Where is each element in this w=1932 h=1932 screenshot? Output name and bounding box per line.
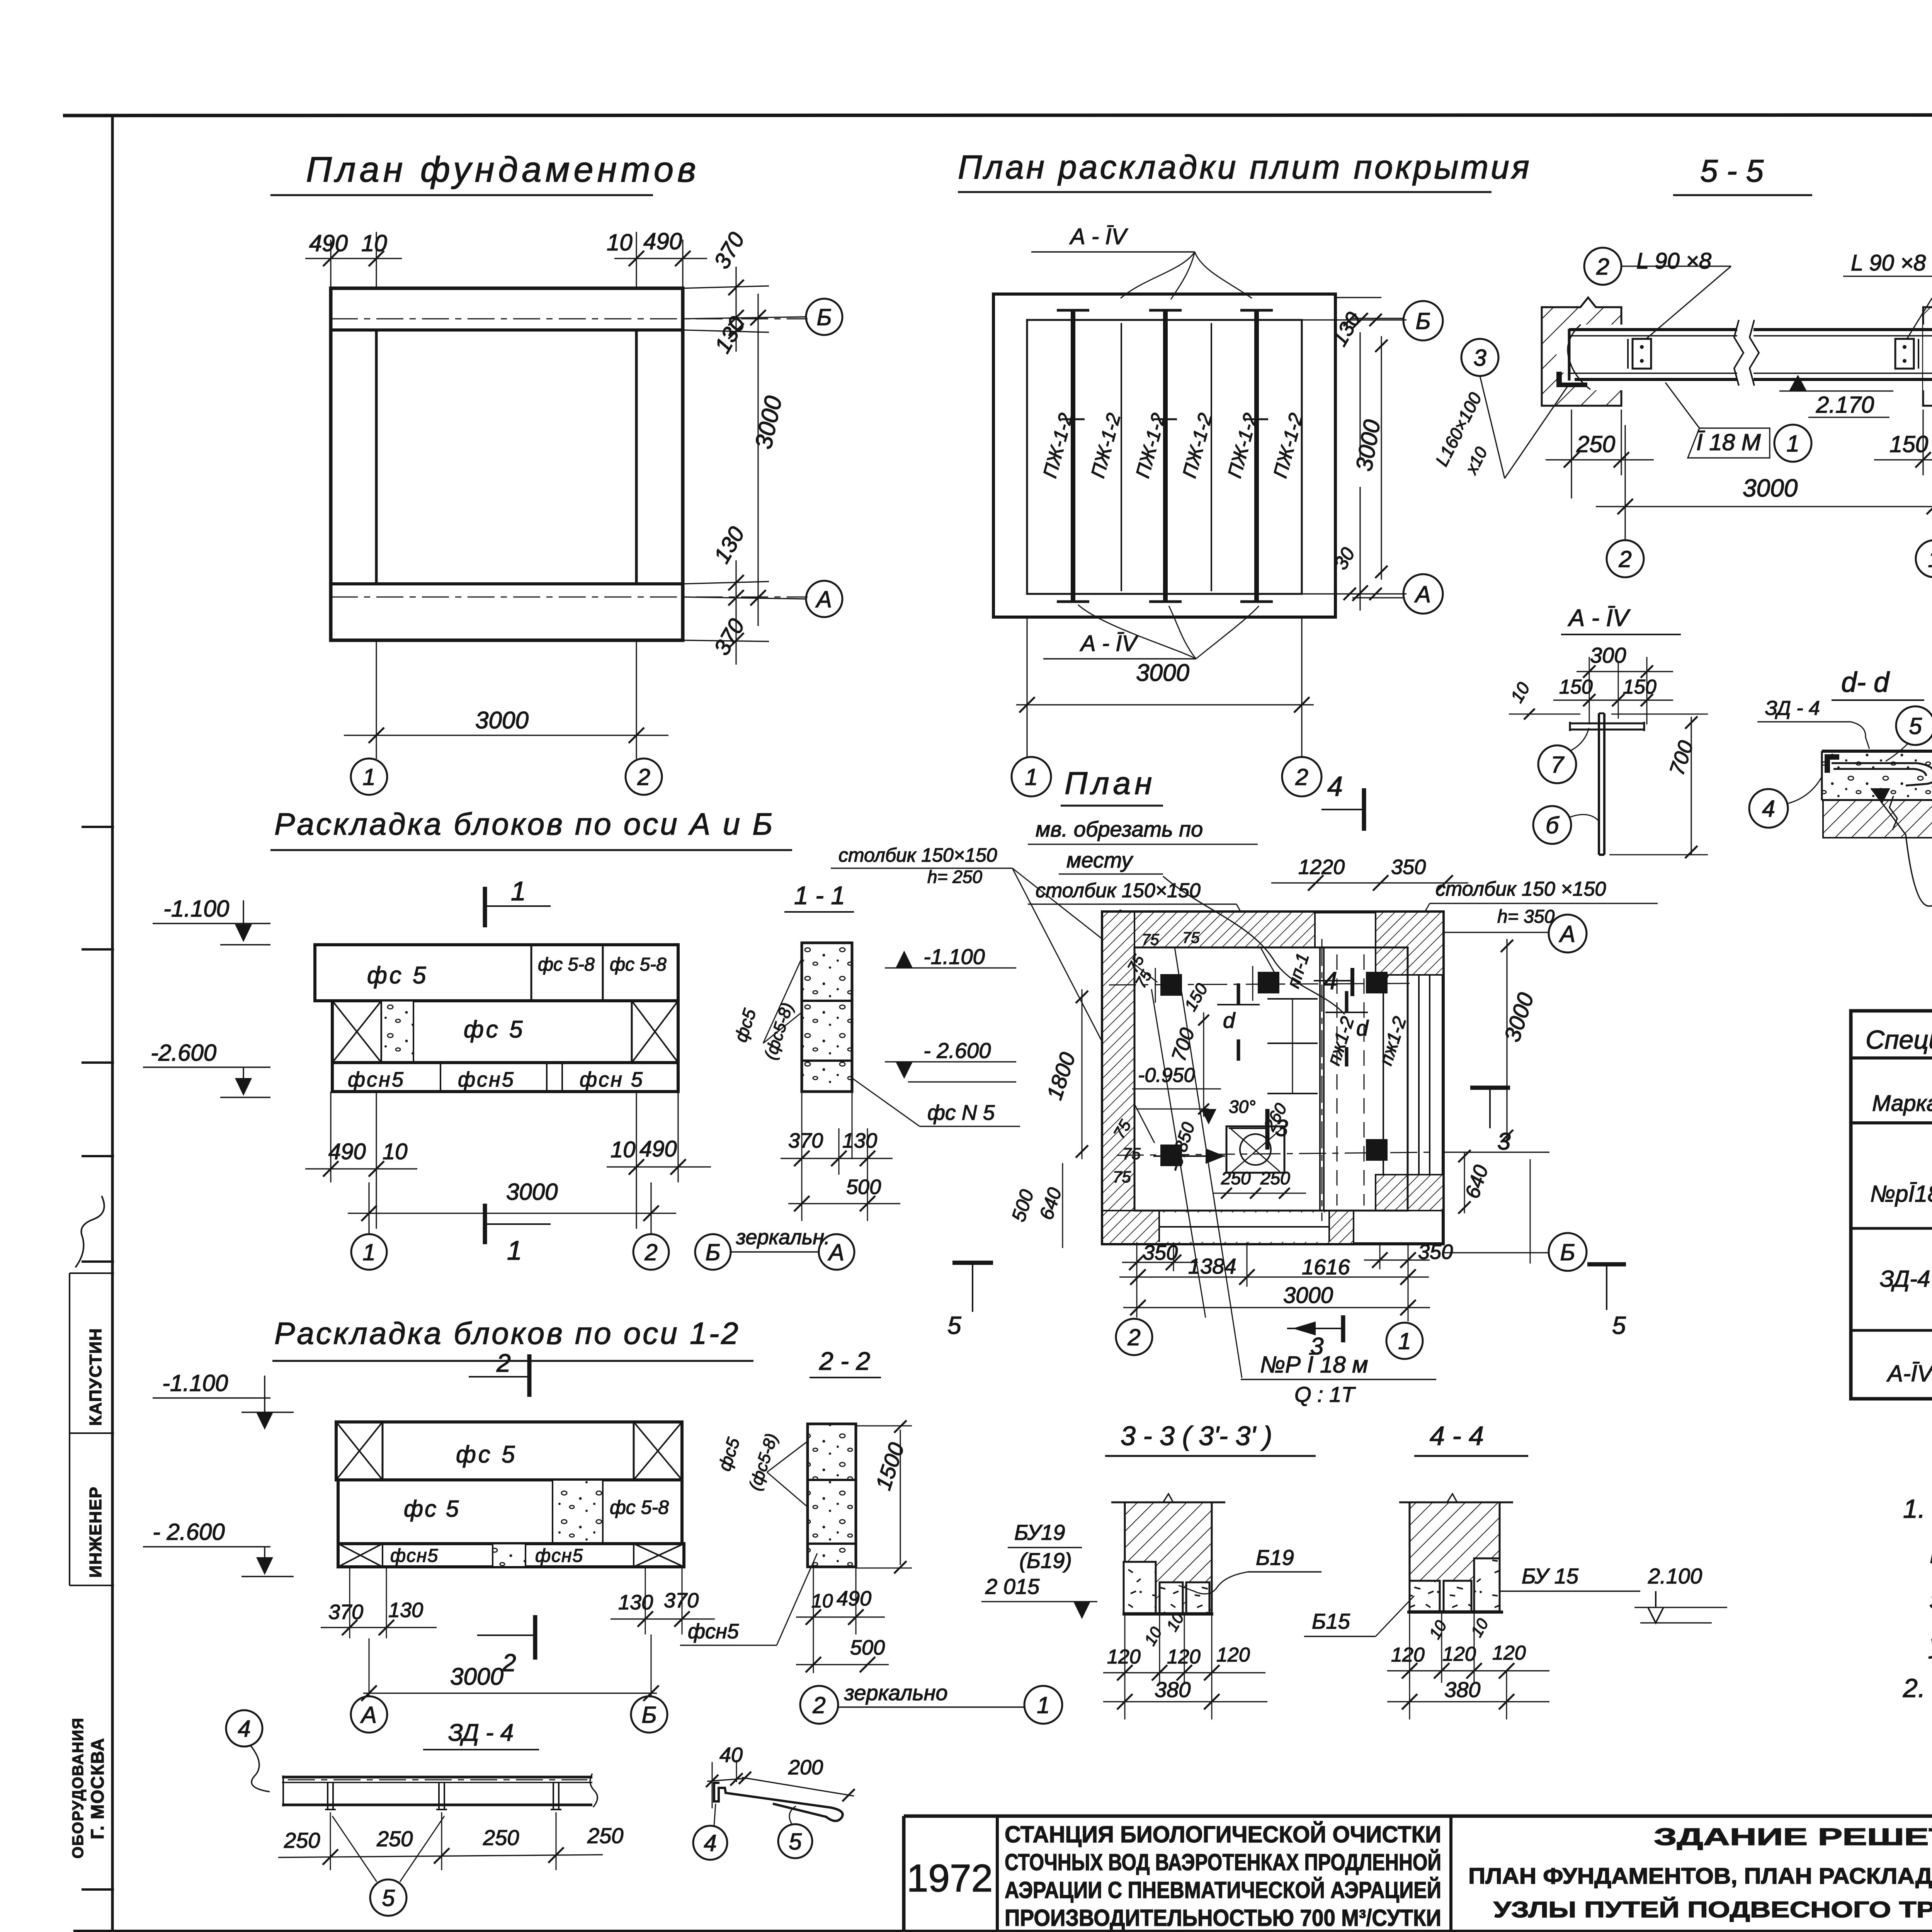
svg-text:зеркально: зеркально bbox=[844, 1680, 948, 1705]
svg-text:10: 10 bbox=[611, 1137, 636, 1162]
foundation plan top band bottom edge bbox=[331, 328, 683, 332]
axis circle 1 slab plan bbox=[1012, 757, 1051, 796]
svg-text:250: 250 bbox=[1260, 1168, 1290, 1188]
svg-text:2: 2 bbox=[1618, 546, 1631, 572]
svg-text:фсн 5: фсн 5 bbox=[580, 1068, 644, 1091]
svg-text:120: 120 bbox=[1442, 1643, 1476, 1665]
4-4 wall hatched bbox=[1410, 1502, 1500, 1581]
3-3 small blocks bbox=[1160, 1582, 1183, 1613]
axis circle 2 under 5-5 bbox=[1607, 540, 1644, 577]
svg-text:Q : 1Т: Q : 1Т bbox=[1294, 1382, 1356, 1406]
callout circle 4 detail bbox=[693, 1826, 727, 1860]
svg-text:ЗД - 4: ЗД - 4 bbox=[448, 1719, 514, 1746]
svg-text:3: 3 bbox=[1275, 1115, 1288, 1141]
svg-text:250: 250 bbox=[376, 1827, 413, 1851]
svg-text:Раскладка блоков по оси 1-2: Раскладка блоков по оси 1-2 bbox=[274, 1316, 740, 1350]
svg-text:370: 370 bbox=[328, 1600, 363, 1624]
5-5 right wall hatched bbox=[1923, 307, 1932, 406]
callout circle 5 detail bbox=[778, 1824, 812, 1858]
svg-text:3: 3 bbox=[1497, 1128, 1510, 1155]
3-3 block left bbox=[1124, 1562, 1156, 1613]
title block frame bbox=[904, 1815, 1932, 1818]
svg-text:370: 370 bbox=[788, 1129, 823, 1152]
wall hatching bottom-right block bbox=[1376, 1175, 1443, 1211]
d-d slab block bbox=[1822, 751, 1932, 800]
svg-text:L 90 ×8: L 90 ×8 bbox=[1851, 250, 1926, 276]
svg-text:мв. обрезать по: мв. обрезать по bbox=[1036, 817, 1203, 841]
level -1.100 right of 1-1 bbox=[896, 951, 913, 968]
svg-text:Ī 18 М: Ī 18 М bbox=[1696, 429, 1761, 455]
svg-text:Б: Б bbox=[641, 1702, 656, 1728]
svg-text:-1.100: -1.100 bbox=[923, 944, 985, 969]
svg-text:А: А bbox=[360, 1702, 377, 1728]
svg-text:зеркальн.: зеркальн. bbox=[736, 1226, 830, 1249]
svg-text:3000: 3000 bbox=[1743, 474, 1798, 502]
wall hatching top-right block bbox=[1376, 912, 1443, 975]
svg-text:месту: месту bbox=[1066, 848, 1133, 872]
svg-text:-1.100: -1.100 bbox=[163, 896, 229, 922]
svg-text:Марка: Марка bbox=[1872, 1091, 1932, 1116]
svg-text:5: 5 bbox=[947, 1311, 961, 1339]
svg-text:30°: 30° bbox=[1229, 1097, 1256, 1117]
svg-text:КАПУСТИН: КАПУСТИН bbox=[86, 1328, 105, 1426]
section mark 5 left bbox=[952, 1261, 993, 1265]
svg-text:Б: Б bbox=[705, 1240, 720, 1265]
svg-text:План раскладки плит покрытия: План раскладки плит покрытия bbox=[958, 149, 1532, 186]
svg-text:250: 250 bbox=[587, 1823, 623, 1848]
svg-text:75: 75 bbox=[1182, 929, 1200, 946]
5-5 mid break bbox=[1737, 321, 1753, 386]
axis line А bbox=[331, 597, 808, 598]
svg-text:А: А bbox=[1559, 921, 1575, 947]
axis circle 2 slab plan bbox=[1282, 757, 1321, 796]
left margin tick marks bbox=[82, 826, 114, 828]
svg-text:250: 250 bbox=[483, 1825, 519, 1850]
slab plan outer rect bbox=[993, 294, 1335, 617]
svg-text:2: 2 bbox=[812, 1692, 825, 1718]
X block right bbox=[631, 1001, 633, 1063]
5-5 connection plate right L90x8 bbox=[1895, 339, 1914, 369]
axis circle А slab plan bbox=[1403, 574, 1443, 614]
speckled block bbox=[381, 1001, 413, 1063]
svg-text:2: 2 bbox=[1127, 1325, 1140, 1350]
svg-text:№Р Ī 18 м: №Р Ī 18 м bbox=[1260, 1352, 1368, 1378]
svg-text:№рĪ18: №рĪ18 bbox=[1870, 1181, 1932, 1207]
svg-text:120: 120 bbox=[1107, 1646, 1141, 1668]
blocks row top ФС5 bbox=[315, 945, 678, 1001]
svg-text:ЗД - 4: ЗД - 4 bbox=[1765, 697, 1820, 719]
wall hatching left bbox=[1102, 912, 1134, 1244]
1-2 top row ФС5 with X ends bbox=[336, 1422, 682, 1480]
sheet frame top border bbox=[63, 115, 1932, 116]
axis circle 2 bbox=[626, 759, 662, 795]
opening in bottom wall bbox=[1159, 1213, 1329, 1242]
svg-text:10: 10 bbox=[811, 1590, 833, 1612]
svg-text:2: 2 bbox=[644, 1240, 657, 1265]
svg-text:- 2.600: - 2.600 bbox=[153, 1519, 225, 1545]
svg-text:Б: Б bbox=[1415, 308, 1430, 334]
svg-text:Б19: Б19 bbox=[1256, 1545, 1294, 1570]
svg-text:СТОЧНЫХ ВОД ВАЭРОТЕНКАХ ПРОДЛЕ: СТОЧНЫХ ВОД ВАЭРОТЕНКАХ ПРОДЛЕННОЙ bbox=[1005, 1849, 1441, 1875]
bent plate profile bbox=[714, 1783, 843, 1821]
callout circle 3 left bbox=[1461, 339, 1498, 376]
svg-text:75: 75 bbox=[1122, 1145, 1141, 1163]
svg-text:1220: 1220 bbox=[1298, 855, 1345, 879]
svg-text:h= 250: h= 250 bbox=[927, 867, 982, 887]
embedded angle at left bbox=[1825, 754, 1839, 773]
1-2 bottom row ФСН5 bbox=[338, 1544, 684, 1567]
svg-text:300: 300 bbox=[1590, 643, 1626, 667]
foundation plan left inner wall line bbox=[375, 330, 378, 584]
svg-text:1: 1 bbox=[1786, 431, 1799, 457]
svg-text:1: 1 bbox=[1025, 764, 1037, 790]
door opening right wall thin lines bbox=[1418, 975, 1420, 1175]
foundation plan outline bbox=[331, 288, 683, 640]
svg-text:250: 250 bbox=[1221, 1168, 1251, 1188]
svg-text:490: 490 bbox=[643, 228, 682, 254]
svg-text:5: 5 bbox=[1612, 1311, 1626, 1339]
svg-text:1: 1 bbox=[1037, 1692, 1049, 1718]
svg-text:столбик 150 ×150: столбик 150 ×150 bbox=[1435, 878, 1606, 900]
svg-text:А: А bbox=[828, 1240, 844, 1265]
arrow into opening bbox=[1153, 1155, 1225, 1157]
svg-text:5: 5 bbox=[789, 1829, 802, 1855]
svg-text:1. Блоки фундаментов укладыват: 1. Блоки фундаментов укладывать на песча… bbox=[1903, 1494, 1932, 1524]
svg-text:-1.100: -1.100 bbox=[162, 1370, 228, 1396]
dims 490 10 / 10 490 below bbox=[330, 1092, 331, 1182]
svg-text:500: 500 bbox=[850, 1636, 885, 1659]
svg-text:2: 2 bbox=[496, 1349, 511, 1377]
svg-text:4: 4 bbox=[1762, 796, 1775, 822]
svg-text:2: 2 bbox=[1295, 764, 1308, 790]
axis circle Б bbox=[806, 299, 842, 335]
rail studs bbox=[327, 1782, 328, 1810]
svg-text:1: 1 bbox=[362, 1240, 375, 1265]
svg-text:3000: 3000 bbox=[506, 1179, 558, 1205]
X block left bbox=[332, 1001, 381, 1063]
5-5 white pocket in walls bbox=[1556, 325, 1623, 390]
svg-text:d- d: d- d bbox=[1841, 667, 1890, 698]
small opening square with circle bbox=[1226, 1126, 1284, 1173]
svg-text:130: 130 bbox=[388, 1599, 423, 1622]
svg-text:ЗДАНИЕ РЕШЕТОК: ЗДАНИЕ РЕШЕТОК bbox=[1654, 1824, 1932, 1850]
axis circle 1 bbox=[351, 759, 387, 795]
svg-text:490: 490 bbox=[639, 1136, 677, 1162]
axis circle Б with зеркальн to А bbox=[695, 1234, 731, 1270]
svg-text:фсн5: фсн5 bbox=[458, 1068, 515, 1091]
svg-text:План: План bbox=[1065, 766, 1156, 801]
callout circle б bbox=[1533, 806, 1571, 844]
section mark 3 right upper bbox=[1470, 1086, 1510, 1090]
level 2.170 bbox=[1789, 375, 1807, 391]
section mark 2 top bbox=[527, 1354, 532, 1397]
svg-text:d: d bbox=[1223, 1008, 1236, 1032]
axis circle А bbox=[806, 581, 842, 617]
svg-text:4: 4 bbox=[1327, 771, 1343, 802]
left axis 3000 dim between Б and А bbox=[1381, 336, 1382, 580]
svg-text:200: 200 bbox=[788, 1756, 823, 1779]
svg-text:БУ 15: БУ 15 bbox=[1522, 1564, 1579, 1588]
sheet frame bottom border bbox=[73, 1930, 1932, 1932]
ladder symbol near center bbox=[1267, 998, 1318, 1000]
svg-text:2: 2 bbox=[637, 764, 650, 790]
central plan outer bbox=[1102, 912, 1443, 1244]
svg-text:4: 4 bbox=[238, 1716, 250, 1742]
level -2.600 right of 1-1 bbox=[896, 1062, 913, 1079]
5-5 left seat angle bbox=[1556, 372, 1587, 387]
long leader from label to plan bbox=[1175, 947, 1242, 1378]
svg-text:ЗД-4: ЗД-4 bbox=[1880, 1266, 1930, 1292]
3-3 wall hatched bbox=[1125, 1502, 1212, 1613]
svg-text:3 - 3 ( 3'- 3' ): 3 - 3 ( 3'- 3' ) bbox=[1121, 1421, 1272, 1451]
inner room boundary bbox=[1134, 947, 1408, 1211]
svg-text:350: 350 bbox=[1391, 855, 1426, 879]
svg-text:370: 370 bbox=[664, 1589, 699, 1612]
callout circle 4 bbox=[226, 1710, 262, 1747]
svg-text:2.100: 2.100 bbox=[1648, 1564, 1702, 1588]
svg-text:(Б19): (Б19) bbox=[1019, 1548, 1072, 1573]
axis circle 1 bbox=[351, 1234, 387, 1270]
svg-text:1616: 1616 bbox=[1302, 1255, 1350, 1279]
svg-text:1: 1 bbox=[1928, 546, 1932, 572]
svg-text:Г. МОСКВА: Г. МОСКВА bbox=[87, 1738, 107, 1839]
slab plan inner rect bbox=[1027, 320, 1302, 594]
axis circle Б slab plan bbox=[1403, 301, 1443, 340]
left margin signature bbox=[75, 1196, 104, 1267]
1-2 middle row bbox=[338, 1480, 682, 1544]
axis circle 1 bottom bbox=[1386, 1323, 1423, 1359]
svg-text:Раскладка блоков по оси А и: Раскладка блоков по оси А и Б bbox=[274, 807, 774, 841]
table Спецификация стали на 1 штуку каждой марки bbox=[1851, 1011, 1932, 1399]
svg-text:- 2.600: - 2.600 bbox=[923, 1038, 991, 1063]
svg-text:4 - 4: 4 - 4 bbox=[1430, 1421, 1484, 1451]
svg-text:1: 1 bbox=[1398, 1328, 1411, 1354]
axis circle 2 зеркально circle 1 bbox=[800, 1686, 838, 1724]
leader curves to plates bbox=[1121, 252, 1252, 299]
dims 370 130 / 130 370 bbox=[349, 1567, 350, 1638]
svg-text:d: d bbox=[1356, 1016, 1369, 1040]
svg-text:h= 350: h= 350 bbox=[1497, 906, 1554, 927]
svg-text:490: 490 bbox=[837, 1587, 871, 1610]
svg-text:7: 7 bbox=[1551, 752, 1565, 778]
svg-text:А: А bbox=[1414, 582, 1431, 607]
axis line Б bbox=[331, 318, 808, 320]
svg-text:фсн5: фсн5 bbox=[688, 1620, 739, 1643]
svg-text:120: 120 bbox=[1216, 1644, 1250, 1666]
svg-text:250: 250 bbox=[284, 1828, 320, 1852]
svg-text:б: б bbox=[1546, 813, 1560, 838]
svg-text:УЗЛЫ ПУТЕЙ ПОДВЕСНОГО ТРАНСПОР: УЗЛЫ ПУТЕЙ ПОДВЕСНОГО ТРАНСПОРТА bbox=[1493, 1897, 1932, 1922]
svg-text:500: 500 bbox=[846, 1175, 881, 1199]
right dim chain 370 130 3000 130 370 bbox=[683, 286, 769, 288]
svg-text:А - ĪV: А - ĪV bbox=[1069, 224, 1128, 249]
axis circle Б bbox=[631, 1696, 667, 1733]
svg-text:L 90 ×8: L 90 ×8 bbox=[1636, 248, 1711, 274]
svg-text:3000: 3000 bbox=[1136, 660, 1189, 686]
section mark 3 inner bbox=[1265, 1109, 1270, 1150]
svg-text:фс 5-8: фс 5-8 bbox=[610, 1497, 669, 1518]
svg-text:5 - 5: 5 - 5 bbox=[1700, 153, 1764, 189]
5-5 crane beam I18 bbox=[1569, 328, 1932, 331]
svg-text:Б: Б bbox=[816, 304, 832, 330]
svg-text:фсн5: фсн5 bbox=[348, 1068, 405, 1091]
svg-text:2: 2 bbox=[502, 1649, 516, 1677]
svg-text:120: 120 bbox=[1492, 1642, 1526, 1664]
foundation plan right inner wall line bbox=[635, 330, 638, 584]
section mark 2 bottom bbox=[533, 1615, 537, 1660]
svg-text:380: 380 bbox=[1444, 1677, 1480, 1702]
svg-text:350: 350 bbox=[1143, 1241, 1178, 1264]
svg-text:75: 75 bbox=[1113, 1168, 1131, 1186]
1-1 column blocks bbox=[802, 943, 852, 1092]
svg-text:10: 10 bbox=[607, 230, 633, 255]
svg-text:ОБОРУДОВАНИЯ: ОБОРУДОВАНИЯ bbox=[70, 1717, 87, 1859]
svg-text:столбик 150×150: столбик 150×150 bbox=[838, 844, 997, 866]
svg-text:А - ĪV: А - ĪV bbox=[1567, 605, 1631, 631]
svg-text:подготовку толщиной 100мм Швы: подготовку толщиной 100мм Швы между блок… bbox=[1930, 1539, 1932, 1569]
svg-text:1 - 1: 1 - 1 bbox=[794, 881, 845, 910]
svg-text:фс N 5: фс N 5 bbox=[927, 1100, 995, 1124]
T profile: plate and stem bbox=[1570, 723, 1644, 724]
axis circle 2 bbox=[633, 1234, 669, 1270]
svg-text:250: 250 bbox=[1576, 431, 1615, 457]
svg-text:2 - 2: 2 - 2 bbox=[819, 1347, 870, 1375]
svg-text:5: 5 bbox=[1909, 713, 1922, 739]
4-4 blocks bbox=[1410, 1581, 1440, 1611]
svg-text:А: А bbox=[815, 587, 832, 612]
svg-text:490: 490 bbox=[328, 1139, 366, 1164]
svg-text:150: 150 bbox=[1559, 676, 1593, 698]
svg-text:А - ĪV: А - ĪV bbox=[1080, 631, 1139, 656]
callout circle 1 beam bbox=[1774, 425, 1811, 462]
sheet frame left border bbox=[111, 116, 114, 1932]
svg-text:ИНЖЕНЕР: ИНЖЕНЕР bbox=[86, 1486, 105, 1578]
svg-text:План фундаментов: План фундаментов bbox=[306, 150, 700, 189]
axis circle Б right bbox=[1549, 1233, 1587, 1271]
break marks bbox=[1889, 748, 1932, 830]
svg-text:1972: 1972 bbox=[907, 1857, 993, 1900]
svg-text:Спецификация стали на 1 штуку: Спецификация стали на 1 штуку каждой мар… bbox=[1866, 1025, 1932, 1054]
svg-text:40: 40 bbox=[719, 1743, 743, 1767]
svg-text:2. Размеры в скобках даны для: 2. Размеры в скобках даны для сечения 3'… bbox=[1903, 1673, 1932, 1703]
leader wavy curve from обрезать label into plan bbox=[1163, 876, 1345, 1014]
svg-text:Б15: Б15 bbox=[1312, 1609, 1350, 1633]
plates ПЖ1-2 dashed outlines right side bbox=[1337, 954, 1338, 1206]
5-5 left wall hatched bbox=[1542, 307, 1621, 406]
5-5 connection plate left L90x8 bbox=[1633, 339, 1651, 369]
svg-text:490: 490 bbox=[309, 230, 348, 256]
svg-text:фс 5: фс 5 bbox=[464, 1016, 525, 1043]
svg-text:фс 5: фс 5 bbox=[404, 1496, 460, 1522]
svg-text:Б: Б bbox=[1560, 1240, 1575, 1265]
section mark 1 top bbox=[483, 887, 487, 927]
svg-text:фс 5: фс 5 bbox=[456, 1441, 517, 1468]
axis circle 1 under 5-5 bbox=[1916, 540, 1932, 577]
svg-text:фсн5: фсн5 bbox=[535, 1546, 583, 1566]
wall hatching top bbox=[1134, 912, 1315, 947]
section mark 5 right bbox=[1587, 1262, 1626, 1267]
blocks row bottom ФСН5 bbox=[332, 1063, 678, 1092]
section mark 1 bottom bbox=[483, 1204, 487, 1244]
axis circle 2 bottom bbox=[1116, 1319, 1152, 1355]
svg-text:4: 4 bbox=[704, 1830, 716, 1856]
callout circle 2 with label L90x8 left bbox=[1584, 248, 1621, 285]
svg-text:1: 1 bbox=[507, 1235, 522, 1265]
foundation plan bottom band top edge bbox=[331, 582, 683, 585]
slab beam thick bars with end caps bbox=[1071, 309, 1075, 603]
callout circle 4 d-d bbox=[1749, 789, 1788, 828]
dim 1500 right bbox=[856, 1425, 912, 1427]
svg-text:2: 2 bbox=[1596, 254, 1609, 280]
svg-text:3: 3 bbox=[1473, 345, 1486, 371]
blocks row middle bbox=[332, 1001, 678, 1063]
svg-text:2 015: 2 015 bbox=[985, 1574, 1040, 1599]
svg-text:10: 10 bbox=[383, 1139, 408, 1164]
svg-text:столбик 150×150: столбик 150×150 bbox=[1036, 879, 1201, 902]
anchor hook bbox=[1832, 763, 1932, 786]
black columns 150x150 bbox=[1160, 974, 1182, 996]
svg-text:ПРОИЗВОДИТЕЛЬНОСТЬЮ 700 М³/СУТ: ПРОИЗВОДИТЕЛЬНОСТЬЮ 700 М³/СУТКИ bbox=[1005, 1905, 1441, 1931]
slab joint thin lines bbox=[1121, 323, 1122, 591]
callout circle 5 with leaders bbox=[370, 1879, 406, 1916]
axis dash-dot lines through columns bbox=[1109, 983, 1414, 985]
svg-text:130: 130 bbox=[618, 1591, 653, 1614]
svg-text:фс 5-8: фс 5-8 bbox=[610, 954, 667, 975]
monorail I18 line vertical center bbox=[1319, 947, 1321, 1211]
svg-text:120: 120 bbox=[1167, 1646, 1201, 1668]
2-2 column blocks bbox=[808, 1424, 856, 1567]
svg-text:фсн5: фсн5 bbox=[390, 1546, 439, 1566]
svg-text:1: 1 bbox=[362, 764, 375, 790]
svg-text:АЭРАЦИИ С ПНЕВМАТИЧЕСКОЙ АЭРАЦ: АЭРАЦИИ С ПНЕВМАТИЧЕСКОЙ АЭРАЦИЕЙ bbox=[1005, 1877, 1441, 1903]
svg-text:5: 5 bbox=[382, 1885, 395, 1911]
svg-text:БУ19: БУ19 bbox=[1014, 1520, 1065, 1544]
svg-text:ПЛАН ФУНДАМЕНТОВ, ПЛАН РАСКЛАД: ПЛАН ФУНДАМЕНТОВ, ПЛАН РАСКЛАДКИ ПЛИТ ПО… bbox=[1468, 1864, 1932, 1889]
svg-text:2.170: 2.170 bbox=[1816, 392, 1874, 418]
svg-text:фс 5-8: фс 5-8 bbox=[538, 954, 595, 975]
svg-text:3000: 3000 bbox=[450, 1663, 503, 1690]
svg-text:СТАНЦИЯ БИОЛОГИЧЕСКОЙ ОЧИСТКИ: СТАНЦИЯ БИОЛОГИЧЕСКОЙ ОЧИСТКИ bbox=[1005, 1821, 1441, 1847]
svg-text:75: 75 bbox=[1142, 931, 1159, 948]
callout circle 7 bbox=[1538, 745, 1576, 783]
svg-text:-2.600: -2.600 bbox=[151, 1040, 216, 1066]
svg-text:150: 150 bbox=[1889, 431, 1928, 457]
svg-text:120: 120 bbox=[1391, 1644, 1425, 1666]
wall hatching bottom bbox=[1102, 1211, 1354, 1244]
hatched base below bbox=[1823, 800, 1932, 838]
bottom dim 3000 with axes 1 2 bbox=[376, 640, 377, 759]
svg-text:фс 5: фс 5 bbox=[367, 962, 429, 989]
callout circle 5 d-d bbox=[1896, 706, 1932, 745]
svg-text:3000: 3000 bbox=[475, 707, 529, 734]
svg-text:1: 1 bbox=[511, 876, 526, 906]
svg-text:130: 130 bbox=[842, 1129, 877, 1152]
svg-text:3000: 3000 bbox=[1283, 1283, 1333, 1308]
svg-text:А-ĪV: А-ĪV bbox=[1886, 1361, 1932, 1386]
dims 10 490 500 below 2-2 bbox=[813, 1567, 814, 1673]
axis circle А bbox=[351, 1696, 387, 1733]
rail bars bbox=[282, 1776, 592, 1779]
axis circle А right bbox=[1549, 915, 1587, 952]
section mark 3 bottom bbox=[1287, 1328, 1343, 1329]
svg-text:заделать цементным раствором М: заделать цементным раствором М-.50,монол… bbox=[1930, 1585, 1932, 1614]
